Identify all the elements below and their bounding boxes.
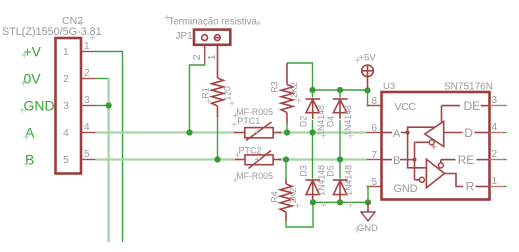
wire A node up to driver	[408, 127, 435, 132]
U3 pin8 stub	[367, 105, 382, 107]
resistor R4 top lead	[285, 179, 287, 184]
junction D2/A	[309, 129, 315, 135]
wire A node down to receiver input	[408, 133, 427, 168]
svg-text:120: 120	[223, 86, 233, 101]
cross Terminação origin	[256, 20, 262, 26]
cross PTC1 symbol origin	[255, 130, 260, 135]
svg-text:+5V: +5V	[359, 53, 377, 64]
svg-text:STL(Z)1550/5G-3.81: STL(Z)1550/5G-3.81	[2, 26, 102, 38]
fuse PTC1 right lead	[273, 132, 281, 134]
receiver input bubble	[419, 177, 424, 182]
resistor R4 top wire from B	[285, 160, 287, 180]
svg-text:5: 5	[63, 154, 69, 166]
wire net B right of PTC2	[279, 158, 367, 160]
driver triangle	[425, 121, 444, 146]
wire B to receiver bubble	[415, 179, 420, 181]
svg-text:4: 4	[84, 122, 90, 133]
ground symbol stub	[367, 202, 369, 212]
svg-text:DE: DE	[464, 99, 481, 113]
resistor R3 zigzag	[281, 85, 293, 113]
diode D2 top wire	[312, 90, 314, 98]
junction D5/GND rail	[337, 199, 343, 205]
wire B to driver bubble	[415, 141, 430, 143]
svg-text:RE: RE	[458, 153, 475, 167]
U3 pin4 wire tip	[504, 132, 507, 134]
diode D4 top wire	[339, 90, 341, 98]
svg-text:0V: 0V	[24, 71, 42, 87]
svg-text:5: 5	[84, 149, 90, 160]
node A internal junction	[406, 131, 410, 135]
JP1 pad circle pin2	[202, 35, 208, 41]
svg-text:GND: GND	[394, 183, 418, 195]
cross 120 label origin	[230, 101, 235, 106]
wire +5V to U3 pin8	[368, 90, 370, 106]
svg-text:1N4148: 1N4148	[343, 105, 353, 136]
diode D5 triangle	[333, 180, 346, 194]
diode D5 cathode bar	[333, 179, 348, 181]
svg-text:PTC2: PTC2	[239, 146, 262, 156]
junction rail/D2	[309, 87, 315, 93]
cross D4 value origin	[348, 133, 353, 138]
wire net A horizontal	[96, 131, 235, 133]
junction pin3/0V	[106, 102, 112, 108]
fuse PTC1 diagonal	[246, 122, 272, 141]
svg-text:2K2: 2K2	[289, 82, 299, 98]
jumper JP1 body	[194, 30, 230, 45]
cross PTC1 origin	[232, 122, 237, 127]
svg-text:D4: D4	[325, 116, 335, 127]
junction PTC2/R4 on B	[283, 156, 289, 162]
wire net A down to D3	[312, 133, 314, 179]
resistor R1 bottom lead	[217, 106, 219, 117]
svg-text:GND: GND	[24, 98, 55, 114]
U3 pin7 stub	[367, 159, 382, 161]
svg-text:3: 3	[492, 95, 498, 106]
cross CN2 origin	[78, 20, 84, 26]
wire D2 to net A	[312, 120, 314, 133]
op-amp U3 body	[382, 92, 490, 200]
CN2 pin 4 stub	[81, 132, 96, 134]
driver inverting bubble	[429, 140, 434, 145]
CN2 pin 5 stub	[81, 159, 96, 161]
U3 pin6 stub	[367, 132, 382, 134]
svg-text:SN75176N: SN75176N	[444, 82, 493, 93]
svg-text:1N4148: 1N4148	[343, 165, 353, 196]
wire DE vertical	[441, 106, 443, 123]
svg-text:1: 1	[84, 41, 90, 52]
diode D4 cathode bar	[333, 98, 348, 100]
svg-text:4: 4	[63, 127, 69, 139]
junction PTC1/R3 on A	[284, 129, 290, 135]
cross GND origin	[20, 107, 26, 113]
wire R3 top to +5V rail	[287, 63, 313, 90]
cross A origin	[24, 134, 30, 140]
DE row line	[442, 105, 461, 107]
junction R1/B	[214, 156, 220, 162]
cross D2 value origin	[321, 133, 326, 138]
cross MF-R005 bottom origin	[233, 178, 238, 183]
+5V symbol stub	[367, 77, 369, 89]
U3 pin3 wire tip	[504, 105, 507, 107]
diode D2 center lead	[312, 99, 314, 119]
D row line	[444, 132, 463, 134]
svg-text:2K2: 2K2	[288, 188, 298, 204]
svg-text:3: 3	[63, 100, 69, 112]
wire R1 to net B	[217, 117, 219, 160]
diode D4 triangle	[333, 99, 346, 112]
U3 pin5 stub	[367, 186, 382, 188]
diode D2 cathode bar	[305, 98, 320, 100]
node B internal junction	[413, 158, 417, 162]
wire net B horizontal	[96, 158, 236, 160]
diode D5 center lead	[339, 180, 341, 202]
CN2 pin 1 stub	[81, 51, 96, 53]
wire GND net from pin3	[96, 105, 109, 107]
svg-text:6: 6	[372, 123, 378, 134]
GND rail wire	[313, 201, 368, 203]
wire R4 bottom to GND rail	[286, 202, 313, 227]
wire 0V net from pin2	[96, 78, 109, 80]
JP1 pin1 tick	[215, 37, 220, 39]
RE row line	[441, 159, 456, 161]
receiver output wire	[445, 174, 464, 187]
driver plus marker	[431, 144, 436, 149]
cross +V origin	[22, 52, 28, 58]
junction GND rail / pin5	[365, 199, 371, 205]
JP1 pad circle pin1	[214, 35, 220, 41]
svg-text:GND: GND	[357, 223, 378, 233]
svg-text:7: 7	[372, 150, 378, 161]
resistor R4 bottom lead	[285, 212, 287, 221]
wire net A right of PTC1	[279, 131, 367, 133]
svg-text:D2: D2	[298, 116, 308, 127]
wire U3 pin5 to GND rail	[368, 187, 370, 203]
diode D3 center lead	[312, 180, 314, 202]
svg-text:2: 2	[191, 54, 203, 60]
fuse PTC2 diagonal	[249, 151, 272, 169]
svg-text:4: 4	[492, 122, 498, 133]
U3 pin1 stub	[490, 186, 504, 188]
U3 pin2 wire tip	[504, 159, 507, 161]
cross PTC2 origin	[235, 153, 240, 158]
CN2 pin 3 stub	[81, 105, 96, 107]
svg-text:+V: +V	[24, 44, 42, 60]
cross 0V origin	[21, 80, 27, 86]
R row line	[476, 186, 490, 188]
+5V supply symbol	[362, 65, 374, 77]
svg-text:2: 2	[63, 73, 69, 85]
diode D3 cathode bar	[305, 179, 320, 181]
junction D3/GND rail	[310, 199, 316, 205]
svg-text:1: 1	[63, 46, 69, 58]
diode D3 triangle	[306, 180, 319, 194]
diode D2 triangle	[306, 99, 319, 112]
wire JP1 pin2 to net A	[190, 63, 205, 133]
receiver enable bubble	[438, 163, 443, 168]
+5V rail wire	[313, 89, 368, 91]
cross R4 2K2 origin	[295, 203, 300, 208]
resistor R3 top lead	[286, 63, 288, 85]
svg-text:R4: R4	[270, 191, 280, 202]
cross 2K2 R3 origin	[296, 98, 301, 103]
U3 pin1 wire tip	[504, 186, 507, 188]
U3 B pin line	[382, 159, 393, 161]
svg-text:1: 1	[206, 54, 218, 60]
junction rail/D4	[337, 87, 343, 93]
U3 pin3 stub	[490, 105, 504, 107]
cross B origin	[24, 161, 30, 167]
svg-text:U3: U3	[383, 81, 395, 92]
svg-text:A: A	[393, 128, 401, 140]
svg-text:3: 3	[84, 95, 90, 106]
U3 pin2 stub	[490, 159, 504, 161]
cross +5V origin	[355, 57, 361, 63]
cross GND origin	[355, 227, 361, 233]
svg-text:2: 2	[84, 68, 90, 79]
wire net B down to D5	[339, 160, 341, 179]
wire RE bubble vertical	[440, 160, 442, 163]
connector CN2 body	[56, 38, 82, 174]
wire D4 to net B	[339, 120, 341, 160]
fuse PTC1 body	[245, 128, 273, 138]
resistor R4 zigzag	[280, 184, 292, 212]
junction rail/+5V	[364, 87, 370, 93]
svg-text:VCC: VCC	[395, 101, 417, 113]
svg-text:R: R	[466, 179, 475, 193]
receiver triangle	[426, 159, 444, 187]
fuse PTC2 right lead	[274, 159, 282, 161]
U3 pin4 stub	[490, 132, 504, 134]
+5V symbol cross	[362, 66, 372, 76]
cross D3 value origin	[321, 202, 326, 207]
svg-text:8: 8	[372, 96, 378, 107]
resistor R1 zigzag	[212, 78, 224, 106]
svg-text:5: 5	[372, 177, 378, 188]
junction D4/B	[337, 156, 343, 162]
svg-text:D3: D3	[298, 165, 308, 176]
cross R1 label origin	[206, 99, 211, 104]
svg-text:2: 2	[492, 149, 498, 160]
svg-text:D5: D5	[325, 165, 335, 176]
U3 A pin line	[382, 132, 393, 134]
svg-text:Terminação resistiva: Terminação resistiva	[169, 17, 258, 28]
JP1 pin2 stub	[204, 46, 206, 63]
junction JP1/A	[186, 129, 192, 135]
svg-text:PTC1: PTC1	[237, 116, 260, 126]
svg-text:R3: R3	[270, 81, 280, 92]
svg-text:B: B	[393, 155, 400, 167]
fuse PTC1 left lead	[234, 132, 245, 134]
cross STL label origin	[90, 35, 96, 41]
svg-text:1: 1	[492, 176, 498, 187]
resistor R1 lead from JP1 pin1	[217, 46, 219, 79]
resistor R3 bottom lead	[286, 113, 288, 124]
diode D4 center lead	[339, 99, 341, 119]
cross D5 value origin	[348, 202, 353, 207]
CN2 pin 2 stub	[81, 78, 96, 80]
cross MF-R005 top origin	[233, 113, 238, 118]
svg-text:D: D	[464, 126, 473, 140]
fuse PTC2 left lead	[235, 159, 245, 161]
svg-text:JP1: JP1	[176, 31, 194, 42]
wire 0V vertical (light)	[107, 79, 109, 243]
cross PTC2 symbol origin	[255, 157, 260, 162]
wire B node vertical	[414, 142, 416, 180]
wire R3 to net A	[286, 124, 288, 133]
fuse PTC2 body	[245, 155, 273, 165]
svg-text:MF-R005: MF-R005	[236, 171, 273, 181]
wire +V net from pin1	[96, 52, 123, 243]
ground symbol triangle	[361, 212, 375, 221]
svg-text:R1: R1	[201, 87, 211, 98]
